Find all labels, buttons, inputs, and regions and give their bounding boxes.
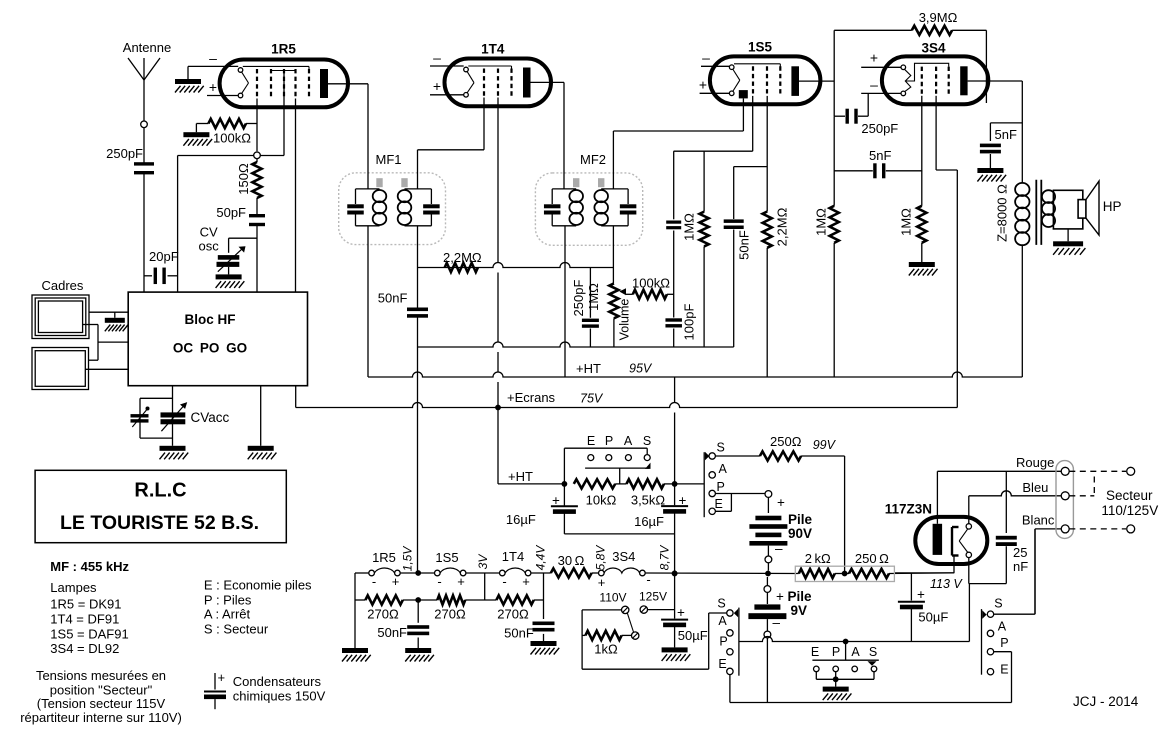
svg-text:–: – bbox=[433, 50, 441, 66]
svg-text:1S5: 1S5 bbox=[748, 40, 773, 55]
svg-text:1S5 = DAF91: 1S5 = DAF91 bbox=[50, 627, 128, 642]
svg-text:270Ω: 270Ω bbox=[367, 607, 399, 622]
svg-text:10kΩ: 10kΩ bbox=[586, 493, 617, 508]
svg-text:250pF: 250pF bbox=[571, 280, 586, 317]
svg-text:1R5 = DK91: 1R5 = DK91 bbox=[50, 597, 121, 612]
svg-text:–: – bbox=[209, 50, 217, 66]
svg-text:3S4: 3S4 bbox=[921, 41, 946, 56]
svg-text:117Z3N: 117Z3N bbox=[885, 502, 932, 517]
svg-text:S: S bbox=[643, 434, 651, 448]
svg-text:E: E bbox=[811, 645, 819, 659]
svg-text:-: - bbox=[437, 574, 441, 589]
svg-text:P: P bbox=[1000, 636, 1008, 650]
svg-text:P: P bbox=[605, 434, 613, 448]
svg-text:2 kΩ: 2 kΩ bbox=[805, 551, 831, 566]
svg-text:OC PO GO: OC PO GO bbox=[173, 341, 247, 356]
svg-text:1R5: 1R5 bbox=[271, 42, 296, 57]
svg-text:-: - bbox=[372, 574, 376, 589]
svg-text:99V: 99V bbox=[813, 438, 837, 452]
svg-text:+: + bbox=[776, 589, 784, 604]
svg-text:CVacc: CVacc bbox=[191, 410, 230, 425]
svg-text:E: E bbox=[587, 434, 595, 448]
svg-text:Antenne: Antenne bbox=[123, 40, 171, 55]
svg-text:–: – bbox=[775, 541, 783, 556]
svg-text:113 V: 113 V bbox=[930, 577, 963, 591]
svg-text:+: + bbox=[218, 670, 226, 685]
svg-text:+: + bbox=[552, 493, 560, 508]
svg-text:–: – bbox=[773, 615, 781, 630]
svg-text:110/125V: 110/125V bbox=[1101, 503, 1158, 518]
svg-text:S: S bbox=[869, 645, 877, 659]
svg-text:(Tension secteur 115V: (Tension secteur 115V bbox=[37, 696, 166, 711]
svg-text:250 Ω: 250 Ω bbox=[855, 551, 889, 566]
svg-text:+: + bbox=[699, 77, 707, 93]
svg-text:MF : 455 kHz: MF : 455 kHz bbox=[50, 559, 129, 574]
svg-text:A : Arrêt: A : Arrêt bbox=[204, 607, 251, 622]
svg-text:9V: 9V bbox=[791, 603, 808, 618]
svg-text:P : Piles: P : Piles bbox=[204, 593, 252, 608]
svg-text:+: + bbox=[392, 574, 400, 589]
svg-text:16µF: 16µF bbox=[506, 512, 536, 527]
svg-text:A: A bbox=[624, 434, 633, 448]
svg-text:2,2MΩ: 2,2MΩ bbox=[443, 250, 482, 265]
svg-text:Pile: Pile bbox=[788, 589, 813, 604]
svg-text:-: - bbox=[502, 574, 506, 589]
svg-text:A: A bbox=[718, 614, 727, 628]
svg-text:1S5: 1S5 bbox=[435, 550, 458, 565]
svg-text:270Ω: 270Ω bbox=[497, 607, 529, 622]
svg-text:50nF: 50nF bbox=[504, 626, 534, 641]
svg-text:5nF: 5nF bbox=[869, 148, 891, 163]
svg-text:CV: CV bbox=[200, 225, 218, 240]
svg-text:100kΩ: 100kΩ bbox=[632, 276, 670, 291]
svg-text:+: + bbox=[677, 605, 685, 620]
svg-text:MF2: MF2 bbox=[580, 152, 606, 167]
svg-text:E: E bbox=[718, 657, 726, 671]
svg-text:+: + bbox=[917, 587, 925, 602]
svg-text:90V: 90V bbox=[788, 526, 812, 541]
svg-text:+: + bbox=[433, 78, 441, 94]
svg-text:Bloc HF: Bloc HF bbox=[184, 312, 235, 327]
svg-text:–: – bbox=[870, 77, 878, 93]
svg-text:Secteur: Secteur bbox=[1106, 488, 1153, 503]
svg-text:50nF: 50nF bbox=[737, 230, 752, 260]
svg-text:Lampes: Lampes bbox=[50, 580, 97, 595]
svg-text:1,5V: 1,5V bbox=[401, 546, 415, 572]
svg-text:3S4: 3S4 bbox=[612, 549, 635, 564]
svg-text:Z=8000 Ω: Z=8000 Ω bbox=[995, 184, 1010, 242]
svg-text:+: + bbox=[870, 50, 878, 66]
svg-text:5nF: 5nF bbox=[995, 127, 1017, 142]
svg-text:25: 25 bbox=[1013, 545, 1027, 560]
svg-text:+HT: +HT bbox=[508, 469, 533, 484]
svg-text:250pF: 250pF bbox=[106, 146, 143, 161]
svg-text:S : Secteur: S : Secteur bbox=[204, 622, 269, 637]
svg-text:4,4V: 4,4V bbox=[534, 545, 548, 571]
svg-text:A: A bbox=[719, 462, 728, 476]
svg-text:S: S bbox=[994, 597, 1002, 611]
svg-text:3S4 = DL92: 3S4 = DL92 bbox=[50, 641, 119, 656]
svg-text:1MΩ: 1MΩ bbox=[586, 283, 601, 311]
svg-text:Rouge: Rouge bbox=[1016, 455, 1054, 470]
svg-text:+: + bbox=[457, 574, 465, 589]
svg-text:95V: 95V bbox=[629, 362, 653, 376]
svg-text:50µF: 50µF bbox=[918, 610, 948, 625]
svg-text:+: + bbox=[679, 493, 687, 508]
svg-text:50nF: 50nF bbox=[377, 625, 407, 640]
svg-text:1T4 = DF91: 1T4 = DF91 bbox=[50, 612, 119, 627]
svg-text:8,7V: 8,7V bbox=[658, 545, 672, 571]
svg-text:+Ecrans: +Ecrans bbox=[507, 390, 556, 405]
svg-text:Cadres: Cadres bbox=[42, 278, 84, 293]
svg-text:LE TOURISTE 52 B.S.: LE TOURISTE 52 B.S. bbox=[60, 512, 259, 534]
svg-text:S: S bbox=[717, 597, 725, 611]
svg-text:20pF: 20pF bbox=[149, 249, 179, 264]
svg-text:30 Ω: 30 Ω bbox=[558, 553, 585, 568]
svg-text:E: E bbox=[1000, 663, 1008, 677]
svg-text:270Ω: 270Ω bbox=[434, 607, 466, 622]
svg-text:Bleu: Bleu bbox=[1022, 480, 1048, 495]
svg-text:2,2MΩ: 2,2MΩ bbox=[775, 207, 790, 246]
svg-text:P: P bbox=[719, 635, 727, 649]
svg-text:3V: 3V bbox=[476, 554, 490, 570]
svg-text:50µF: 50µF bbox=[678, 628, 708, 643]
svg-text:1kΩ: 1kΩ bbox=[594, 642, 618, 657]
svg-text:Blanc: Blanc bbox=[1022, 513, 1055, 528]
svg-text:75V: 75V bbox=[580, 392, 604, 406]
svg-text:E : Economie piles: E : Economie piles bbox=[204, 578, 312, 593]
svg-text:250Ω: 250Ω bbox=[770, 434, 802, 449]
svg-text:osc: osc bbox=[199, 239, 220, 254]
svg-text:1MΩ: 1MΩ bbox=[682, 213, 697, 241]
svg-text:Volume: Volume bbox=[618, 299, 632, 341]
svg-text:A: A bbox=[851, 645, 860, 659]
svg-text:250pF: 250pF bbox=[861, 121, 898, 136]
svg-text:+: + bbox=[209, 79, 217, 95]
svg-text:125V: 125V bbox=[639, 590, 667, 604]
svg-text:+: + bbox=[777, 495, 785, 510]
svg-text:1T4: 1T4 bbox=[502, 549, 524, 564]
svg-text:HP: HP bbox=[1103, 199, 1122, 214]
svg-text:+: + bbox=[522, 574, 530, 589]
svg-text:Pile: Pile bbox=[788, 512, 813, 527]
svg-text:nF: nF bbox=[1013, 559, 1028, 574]
svg-text:–: – bbox=[702, 50, 710, 66]
svg-text:1T4: 1T4 bbox=[481, 42, 505, 57]
svg-text:E: E bbox=[715, 497, 723, 511]
svg-text:5,8V: 5,8V bbox=[594, 545, 608, 571]
svg-text:100pF: 100pF bbox=[682, 304, 697, 341]
svg-text:chimiques 150V: chimiques 150V bbox=[233, 689, 326, 704]
svg-text:+: + bbox=[598, 575, 606, 590]
svg-text:JCJ - 2014: JCJ - 2014 bbox=[1073, 694, 1139, 709]
svg-text:110V: 110V bbox=[599, 591, 626, 605]
svg-text:50nF: 50nF bbox=[378, 291, 408, 306]
svg-text:répartiteur interne sur 110V): répartiteur interne sur 110V) bbox=[20, 710, 182, 725]
svg-text:Tensions mesurées en: Tensions mesurées en bbox=[36, 668, 166, 683]
svg-text:3,5kΩ: 3,5kΩ bbox=[631, 493, 666, 508]
svg-text:R.L.C: R.L.C bbox=[134, 480, 186, 502]
svg-text:1MΩ: 1MΩ bbox=[814, 208, 829, 236]
svg-text:16µF: 16µF bbox=[634, 514, 664, 529]
svg-text:100kΩ: 100kΩ bbox=[213, 131, 251, 146]
svg-text:-: - bbox=[646, 572, 650, 587]
svg-text:P: P bbox=[717, 480, 725, 494]
svg-text:MF1: MF1 bbox=[376, 152, 402, 167]
svg-text:S: S bbox=[717, 441, 725, 455]
svg-text:+HT: +HT bbox=[576, 361, 601, 376]
svg-text:150Ω: 150Ω bbox=[236, 163, 251, 195]
svg-text:1R5: 1R5 bbox=[372, 550, 396, 565]
svg-text:A: A bbox=[998, 619, 1007, 633]
svg-text:Condensateurs: Condensateurs bbox=[233, 674, 322, 689]
svg-text:P: P bbox=[832, 645, 840, 659]
svg-text:3,9MΩ: 3,9MΩ bbox=[919, 10, 958, 25]
svg-text:50pF: 50pF bbox=[216, 205, 246, 220]
svg-text:1MΩ: 1MΩ bbox=[899, 208, 914, 236]
